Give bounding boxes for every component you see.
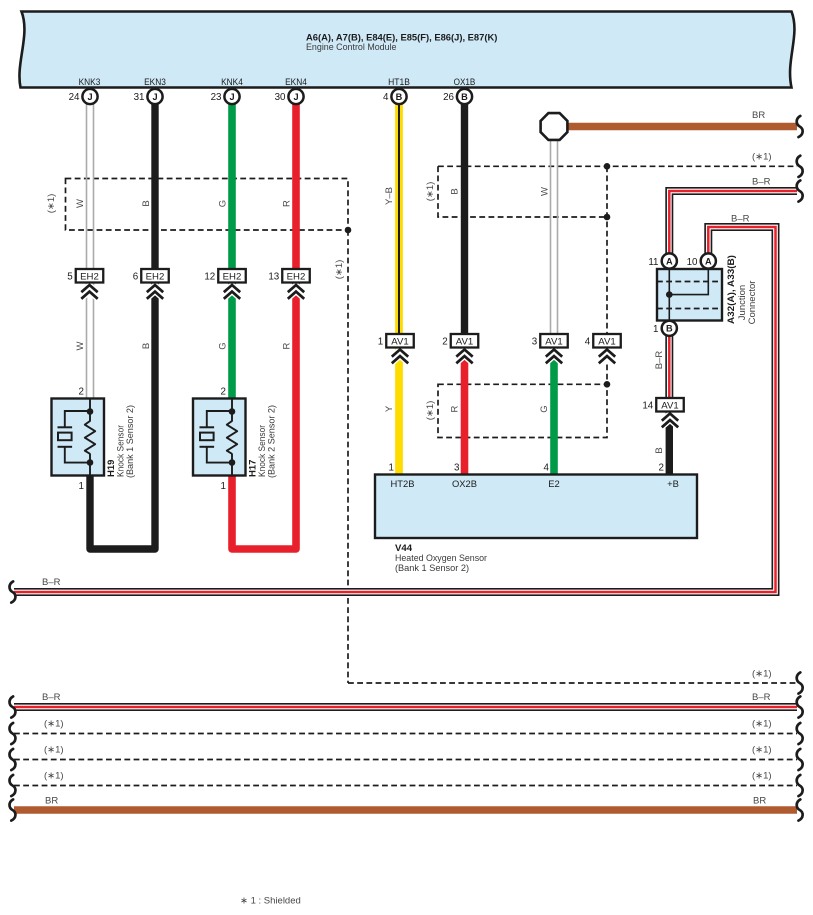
svg-text:B–R: B–R bbox=[731, 214, 750, 225]
connector AV1 pin 14 bbox=[662, 414, 678, 428]
svg-text:Y–B: Y–B bbox=[384, 187, 395, 205]
svg-text:(∗1): (∗1) bbox=[752, 745, 772, 756]
svg-text:(∗1): (∗1) bbox=[425, 401, 436, 421]
svg-text:BR: BR bbox=[45, 796, 58, 807]
connector EH2 pin 6 bbox=[147, 285, 163, 299]
wire R EKN4 red from ECM pin 30 around to H17 pin 1 bbox=[232, 104, 296, 549]
wire B-R junction connector pin 1 to connector 14 AV1 bbox=[665, 336, 673, 399]
wire G KNK4 green from ECM pin 23 to knock sensor H17 pin 2 bbox=[228, 104, 236, 399]
svg-text:OX2B: OX2B bbox=[452, 478, 477, 489]
svg-text:B–R: B–R bbox=[42, 692, 61, 703]
wire B EKN3 black from ECM pin 31 around to H19 pin 1 bbox=[90, 104, 155, 549]
shield outline dashed box around KNK3/EKN3/KNK4/EKN4 wires bbox=[66, 179, 349, 231]
svg-text:AV1: AV1 bbox=[391, 337, 408, 348]
ECM pin 31 (J) bbox=[147, 89, 162, 104]
svg-text:4: 4 bbox=[585, 337, 591, 348]
svg-text:4: 4 bbox=[544, 463, 550, 474]
connector AV1 pin 1 bbox=[392, 350, 408, 364]
svg-text:B–R: B–R bbox=[752, 177, 771, 188]
junction internal wire pin 10 branch bbox=[669, 269, 708, 295]
knock sensor H17 (Bank 2 Sensor 2) bbox=[193, 399, 246, 476]
svg-text:4: 4 bbox=[383, 92, 389, 103]
svg-text:1: 1 bbox=[653, 324, 658, 335]
svg-text:HT2B: HT2B bbox=[391, 478, 415, 489]
connector AV1 pin 4 bbox=[599, 350, 615, 364]
wire R from AV1 2 to V44 pin 3 OX2B bbox=[461, 348, 469, 476]
break symbol right end B-R bbox=[797, 180, 803, 201]
wire B from 14 AV1 to V44 pin 2 +B bbox=[666, 412, 673, 476]
svg-text:EH2: EH2 bbox=[223, 272, 242, 283]
svg-text:3: 3 bbox=[454, 463, 460, 474]
svg-text:AV1: AV1 bbox=[545, 337, 562, 348]
svg-text:2: 2 bbox=[659, 463, 664, 474]
svg-text:B: B bbox=[396, 92, 403, 102]
svg-text:11: 11 bbox=[648, 257, 658, 268]
svg-text:(Bank 1 Sensor 2): (Bank 1 Sensor 2) bbox=[395, 562, 469, 573]
svg-text:B–R: B–R bbox=[752, 692, 771, 703]
svg-text:31: 31 bbox=[134, 92, 145, 103]
svg-text:(∗1): (∗1) bbox=[44, 745, 64, 756]
dashed shield wire below AV1 4 bbox=[606, 365, 608, 385]
svg-text:B–R: B–R bbox=[42, 577, 61, 588]
svg-text:G: G bbox=[218, 342, 229, 349]
svg-text:A32(A), A33(B): A32(A), A33(B) bbox=[726, 255, 737, 324]
svg-text:(∗1): (∗1) bbox=[752, 152, 772, 163]
svg-text:B: B bbox=[654, 447, 665, 453]
svg-text:1: 1 bbox=[221, 481, 226, 492]
ECM pin 24 (J) bbox=[82, 89, 97, 104]
connector AV1 pin 2 bbox=[456, 350, 472, 364]
svg-text:1: 1 bbox=[378, 337, 383, 348]
svg-text:AV1: AV1 bbox=[598, 337, 615, 348]
wire W KNK3 white from ECM pin 24 to knock sensor H19 pin 2 bbox=[87, 104, 94, 399]
svg-text:E2: E2 bbox=[548, 478, 559, 489]
svg-text:J: J bbox=[152, 92, 157, 102]
bus dashed shield line y=733.5 bbox=[14, 733, 797, 735]
junction dot shield box 2 corner bbox=[604, 214, 611, 221]
svg-text:J: J bbox=[229, 92, 234, 102]
svg-text:14: 14 bbox=[642, 401, 653, 412]
svg-text:1: 1 bbox=[389, 463, 394, 474]
shield terminal octagon bbox=[541, 113, 568, 140]
svg-text:13: 13 bbox=[268, 272, 279, 283]
svg-text:+B: +B bbox=[667, 478, 679, 489]
svg-text:2: 2 bbox=[442, 337, 447, 348]
svg-text:B: B bbox=[666, 324, 673, 334]
junction internal wire pin 11 to pin 1 bbox=[668, 269, 670, 321]
svg-text:J: J bbox=[87, 92, 92, 102]
svg-text:30: 30 bbox=[275, 92, 286, 103]
connector EH2 pin 12 bbox=[224, 285, 240, 299]
svg-text:26: 26 bbox=[443, 92, 454, 103]
svg-text:R: R bbox=[282, 200, 293, 207]
svg-text:G: G bbox=[218, 200, 229, 207]
svg-text:(∗1): (∗1) bbox=[334, 260, 345, 280]
dashed shield wire down to connector AV1 4 bbox=[606, 166, 608, 334]
svg-text:B–R: B–R bbox=[654, 351, 665, 370]
svg-text:OX1B: OX1B bbox=[454, 77, 476, 88]
wire Y-B HT1B yellow-black from ECM pin 4 to AV1 1 bbox=[395, 104, 403, 334]
wire G from AV1 3 to V44 pin 4 E2 bbox=[550, 348, 558, 476]
break symbol left end B-R bus bbox=[9, 581, 15, 602]
svg-text:(Bank 2 Sensor 2): (Bank 2 Sensor 2) bbox=[267, 405, 278, 478]
svg-text:10: 10 bbox=[687, 257, 698, 268]
svg-text:Y: Y bbox=[384, 405, 395, 412]
junction connector A32(A) A33(B) bbox=[657, 269, 722, 321]
knock sensor H19 (Bank 1 Sensor 2) bbox=[52, 399, 105, 476]
shield box around OX2B R and E2 G wires bbox=[438, 384, 607, 437]
bus wire B-R full width bbox=[14, 703, 797, 711]
svg-text:(∗1): (∗1) bbox=[752, 669, 772, 680]
svg-text:∗ 1 : Shielded: ∗ 1 : Shielded bbox=[240, 896, 301, 907]
svg-text:A: A bbox=[705, 256, 712, 266]
ECM pin 30 (J) bbox=[288, 89, 303, 104]
svg-text:B: B bbox=[141, 200, 152, 206]
svg-text:2: 2 bbox=[221, 387, 226, 398]
svg-text:(Bank 1 Sensor 2): (Bank 1 Sensor 2) bbox=[125, 405, 136, 478]
svg-text:G: G bbox=[539, 405, 550, 412]
svg-text:J: J bbox=[293, 92, 298, 102]
svg-text:AV1: AV1 bbox=[456, 337, 473, 348]
svg-text:23: 23 bbox=[211, 92, 222, 103]
svg-text:Connector: Connector bbox=[747, 281, 758, 325]
svg-text:KNK4: KNK4 bbox=[221, 77, 243, 88]
dashed shield drain wire horizontal to right edge bbox=[348, 682, 797, 684]
wire B-R from junction pin 10 over right side down to bottom bus bbox=[14, 227, 776, 592]
dashed shield line to right edge at top bbox=[438, 165, 797, 167]
svg-text:AV1: AV1 bbox=[661, 401, 678, 412]
svg-text:W: W bbox=[540, 187, 551, 196]
svg-text:(∗1): (∗1) bbox=[752, 771, 772, 782]
svg-text:(∗1): (∗1) bbox=[44, 771, 64, 782]
svg-text:(∗1): (∗1) bbox=[752, 719, 772, 730]
junction pin 1 (B) bbox=[662, 321, 677, 336]
wire BR brown from shield terminal to right edge bbox=[566, 123, 797, 131]
svg-text:(∗1): (∗1) bbox=[425, 182, 436, 202]
break symbol right end of BR wire bbox=[797, 116, 803, 137]
heated oxygen sensor V44 box bbox=[375, 475, 697, 539]
svg-text:B: B bbox=[461, 92, 468, 102]
svg-text:5: 5 bbox=[67, 272, 73, 283]
svg-text:24: 24 bbox=[69, 92, 80, 103]
svg-text:EKN4: EKN4 bbox=[285, 77, 307, 88]
svg-text:HT1B: HT1B bbox=[388, 77, 410, 88]
wire Y from AV1 1 to V44 pin 1 HT2B bbox=[395, 348, 403, 476]
ECM module A6(A) A7(B) E84(E) E85(F) E86(J) E87(K) bbox=[19, 12, 794, 88]
svg-text:KNK3: KNK3 bbox=[79, 77, 101, 88]
svg-text:W: W bbox=[75, 341, 86, 350]
svg-text:12: 12 bbox=[204, 272, 215, 283]
ECM pin 4 (B) bbox=[391, 89, 406, 104]
junction internal dot bbox=[666, 291, 673, 298]
bus dashed shield line y=759.5 bbox=[14, 759, 797, 761]
svg-text:6: 6 bbox=[133, 272, 139, 283]
svg-text:R: R bbox=[282, 342, 293, 349]
bus wire BR brown full width bbox=[14, 806, 797, 814]
svg-text:BR: BR bbox=[752, 110, 765, 121]
dashed shield drain wire from box corner down bbox=[347, 230, 349, 683]
svg-text:Engine Control Module: Engine Control Module bbox=[306, 41, 397, 52]
junction dot shield top bbox=[604, 163, 611, 170]
svg-text:(∗1): (∗1) bbox=[46, 194, 57, 214]
svg-text:(∗1): (∗1) bbox=[44, 719, 64, 730]
svg-text:EH2: EH2 bbox=[80, 272, 99, 283]
wire B-R from right edge to junction connector pin 11 bbox=[669, 191, 797, 254]
junction dot shield box 3 corner bbox=[604, 381, 611, 388]
svg-text:R: R bbox=[450, 405, 461, 412]
svg-text:EH2: EH2 bbox=[287, 272, 306, 283]
shield box around OX1B B and W wires bbox=[438, 166, 607, 217]
junction pin 10 (A) bbox=[701, 253, 716, 268]
svg-text:2: 2 bbox=[79, 387, 84, 398]
junction pin 11 (A) bbox=[662, 253, 677, 268]
connector EH2 pin 5 bbox=[81, 285, 97, 299]
svg-text:B: B bbox=[141, 343, 152, 349]
svg-text:3: 3 bbox=[532, 337, 538, 348]
connector EH2 pin 13 bbox=[288, 285, 304, 299]
svg-text:EKN3: EKN3 bbox=[144, 77, 166, 88]
svg-text:EH2: EH2 bbox=[146, 272, 165, 283]
wire W white from shield terminal octagon to AV1 3 bbox=[551, 140, 558, 335]
junction dot shield box 1 corner bbox=[345, 227, 352, 234]
svg-text:W: W bbox=[75, 199, 86, 208]
wire B OX1B black from ECM pin 26 to AV1 2 bbox=[461, 104, 468, 334]
svg-text:B: B bbox=[450, 188, 461, 194]
svg-text:1: 1 bbox=[79, 481, 84, 492]
svg-text:A: A bbox=[666, 256, 673, 266]
ECM pin 23 (J) bbox=[224, 89, 239, 104]
svg-text:BR: BR bbox=[753, 796, 766, 807]
connector AV1 pin 3 bbox=[546, 350, 562, 364]
ECM pin 26 (B) bbox=[457, 89, 472, 104]
bus dashed shield line y=785.5 bbox=[14, 785, 797, 787]
